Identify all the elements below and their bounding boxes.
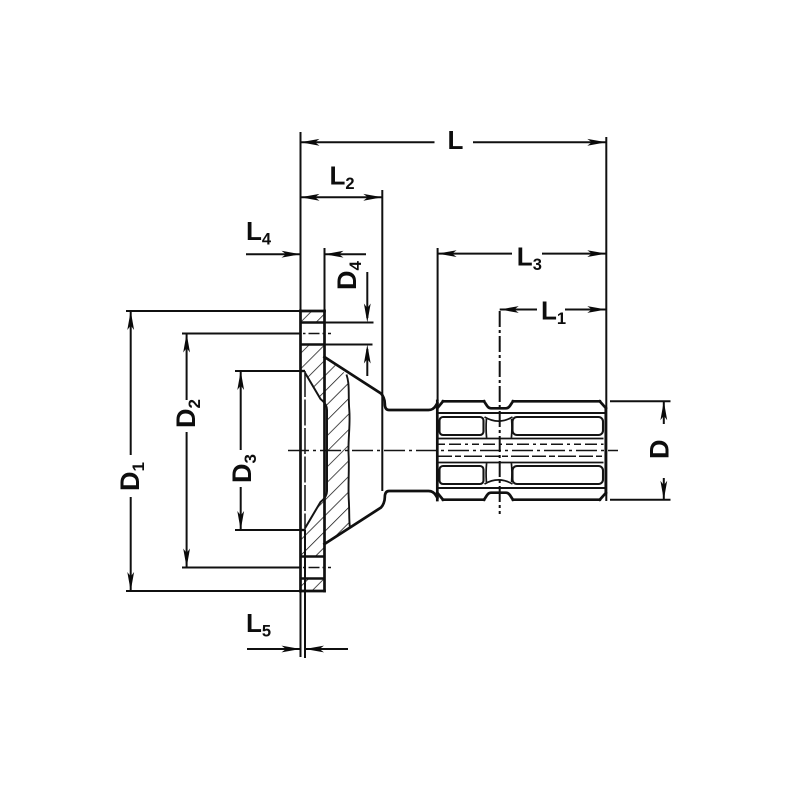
- L1 dim: [500, 309, 537, 311]
- extension line L5 right: [304, 530, 306, 658]
- D1 dim: [130, 311, 132, 455]
- shaft end face: [604, 408, 607, 493]
- D3 extension lines: [235, 370, 305, 372]
- groove cup bottom: [485, 480, 513, 484]
- extension line L2 right: [381, 190, 383, 491]
- shaft OD bottom with groove dip: [443, 498, 484, 501]
- L4 dim: [246, 253, 301, 255]
- D1 extension lines: [126, 310, 301, 312]
- flange outline: [301, 311, 438, 591]
- flange front face: [299, 311, 302, 591]
- extension line L1 left (groove centerline): [499, 311, 501, 514]
- svg-text:L: L: [448, 125, 464, 155]
- dotted lines: [438, 443, 604, 445]
- spline root lines: [438, 438, 604, 440]
- bolt hole centerline top: [289, 333, 331, 335]
- counterbore face wavy line: [347, 375, 350, 527]
- D dim: [663, 401, 665, 424]
- extension line L4 right: [324, 248, 326, 311]
- splined shaft: [438, 401, 606, 499]
- chamfers: [438, 401, 444, 408]
- recess face line: [304, 371, 306, 530]
- extension lines: [126, 132, 671, 658]
- extension line L/L3/L1 right (shaft end): [605, 137, 607, 501]
- spline tooth rects: [440, 417, 484, 435]
- L5 dim: [247, 648, 301, 650]
- flange back face: [323, 311, 326, 591]
- D2 extension lines: [182, 333, 300, 335]
- flange bottom edge: [301, 590, 325, 593]
- bore profile: [305, 373, 327, 529]
- dimension lines and arrows: [127, 139, 667, 653]
- bolt hole centerline bottom: [289, 567, 331, 569]
- svg-text:D: D: [645, 440, 675, 460]
- extension line flange face (L/L2 left): [300, 132, 302, 311]
- D extension lines: [610, 400, 671, 402]
- recess shoulder edges: [301, 370, 306, 372]
- groove cup top: [485, 417, 513, 421]
- extension line L3 left: [437, 248, 439, 401]
- extension line L5 left: [300, 591, 302, 657]
- bolt hole top edges: [301, 323, 325, 579]
- hatched cross-section of flange: [301, 311, 350, 591]
- D2 dim: [186, 334, 188, 401]
- spline secondary lines: [438, 413, 605, 488]
- hub cone top: [325, 357, 438, 410]
- centerline main axis: [288, 450, 618, 452]
- hub face: [436, 401, 439, 500]
- flange top edge: [301, 310, 325, 313]
- L2 dim: [301, 196, 383, 198]
- L dim: [301, 141, 435, 143]
- D4 arrows: [366, 272, 368, 318]
- L3 dim: [438, 253, 512, 255]
- hub cone bottom: [325, 491, 438, 544]
- shaft OD top with groove dip: [443, 400, 484, 403]
- D3 dim: [240, 371, 242, 450]
- D4 extension lines: [325, 322, 374, 324]
